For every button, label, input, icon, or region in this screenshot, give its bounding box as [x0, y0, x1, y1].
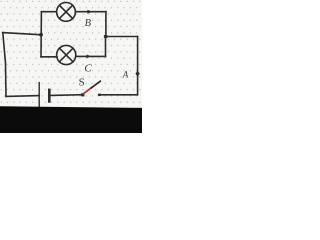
wire: lamp C left stub: [41, 56, 57, 58]
svg-text:B: B: [85, 18, 92, 29]
switch lever dark segment: [91, 81, 100, 88]
wire: junction to right rail horizontal: [106, 36, 138, 38]
wire: left rail vertical: [3, 33, 6, 97]
svg-text:C: C: [84, 63, 92, 75]
wire: switch to right rail bottom segment: [99, 94, 138, 96]
switch pivot contact: [81, 93, 84, 96]
svg-text:S: S: [79, 77, 85, 89]
wire: splitter vertical between branches: [40, 12, 42, 57]
wire: lamp B branch down to junction: [105, 12, 107, 37]
wire: bottom left segment: [6, 95, 39, 98]
current arrow on lamp C branch: [87, 55, 92, 59]
wire: lamp C branch riser to junction: [105, 37, 107, 57]
node: parallel split junction: [39, 33, 43, 37]
wire: battery positive feed, left horizontal: [3, 33, 41, 35]
node: branches merge junction: [104, 35, 108, 39]
battery long plate (+): [38, 83, 40, 108]
current arrow on lamp B branch: [87, 10, 92, 14]
wire: battery to switch: [51, 94, 83, 97]
wire: lamp B left stub: [41, 11, 56, 13]
node A marker on right rail: [135, 71, 139, 77]
lamp C: [57, 45, 76, 64]
wire: lamp B right stub: [75, 11, 106, 13]
switch lever red segment: [83, 87, 92, 93]
battery short plate (-): [48, 90, 51, 102]
wire: lamp C right stub: [76, 55, 106, 57]
svg-text:A: A: [122, 69, 129, 79]
wire: right rail vertical: [137, 37, 139, 95]
black scan border strip: [0, 106, 142, 133]
lamp B: [57, 3, 76, 22]
switch fixed contact: [98, 94, 100, 96]
